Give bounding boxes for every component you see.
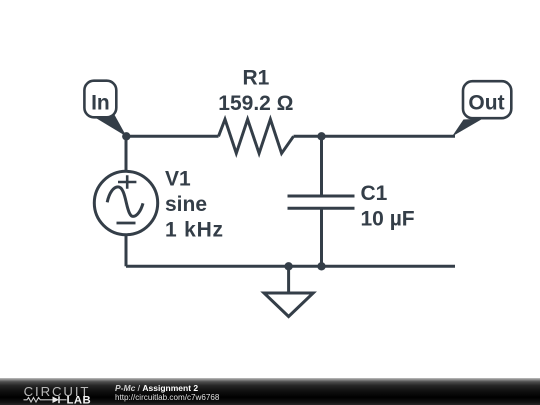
svg-text:R1: R1 <box>242 66 269 89</box>
svg-text:Out: Out <box>468 91 504 114</box>
svg-text:1 kHz: 1 kHz <box>165 219 224 242</box>
svg-text:LAB: LAB <box>67 394 92 405</box>
ground stub wire <box>287 266 290 292</box>
svg-text:In: In <box>91 91 110 114</box>
footer title text <box>115 383 198 393</box>
node flag Out box <box>463 81 511 118</box>
wire: C1 bottom lead <box>320 208 323 266</box>
wire: In node down to V1 top <box>125 136 128 172</box>
svg-text:10 µF: 10 µF <box>361 208 415 231</box>
footer bar <box>0 378 540 405</box>
CircuitLab logo <box>18 378 98 405</box>
wire: C1 top lead <box>320 136 323 196</box>
wire: V1 bottom to ground net <box>125 234 128 266</box>
node junction at ground <box>284 262 292 270</box>
flag pointer for Out <box>452 119 483 137</box>
wire: bottom ground net <box>126 265 455 268</box>
V1 sine waveform <box>107 187 143 217</box>
voltage source V1 circle <box>94 171 157 234</box>
wire: resistor right lead to Out <box>294 135 456 138</box>
node junction at In <box>122 132 130 140</box>
logo diode symbol <box>45 396 67 403</box>
ground symbol triangle <box>264 293 313 317</box>
svg-text:C1: C1 <box>361 182 388 205</box>
V1 plus sign <box>118 175 136 189</box>
capacitor C1 plates <box>288 196 355 208</box>
svg-text:V1: V1 <box>165 167 191 190</box>
node flag In box <box>84 81 116 118</box>
V1 minus sign <box>117 222 136 225</box>
wire: In node to resistor left lead <box>126 135 219 138</box>
svg-text:sine: sine <box>165 193 207 216</box>
node junction at C1 bottom <box>317 262 325 270</box>
logo resistor squiggle <box>24 398 46 403</box>
footer url text <box>115 393 219 402</box>
resistor R1 zigzag <box>219 119 294 153</box>
svg-text:159.2 Ω: 159.2 Ω <box>218 92 293 115</box>
flag pointer for In <box>95 113 127 137</box>
node junction at R1/C1/Out <box>317 132 325 140</box>
